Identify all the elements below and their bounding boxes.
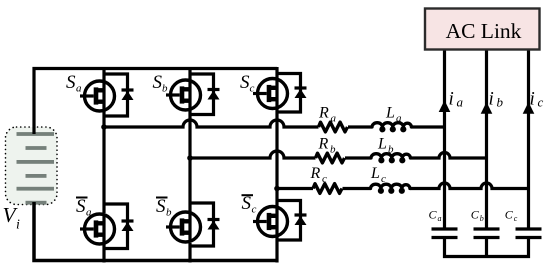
svg-text:S: S (66, 72, 76, 93)
svg-text:L: L (385, 105, 395, 122)
svg-text:R: R (318, 136, 329, 153)
svg-text:a: a (76, 83, 82, 95)
svg-text:b: b (330, 144, 336, 156)
svg-text:i: i (449, 89, 454, 110)
svg-text:AC Link: AC Link (446, 19, 522, 43)
svg-text:c: c (250, 83, 255, 95)
svg-text:R: R (318, 105, 329, 122)
svg-text:c: c (381, 173, 386, 185)
svg-text:C: C (471, 208, 480, 222)
svg-text:b: b (480, 214, 484, 223)
svg-text:b: b (497, 95, 504, 110)
svg-text:a: a (86, 207, 92, 219)
svg-text:i: i (16, 218, 20, 233)
svg-text:a: a (331, 113, 337, 125)
svg-text:i: i (530, 89, 535, 110)
svg-text:S: S (76, 196, 86, 217)
svg-text:L: L (377, 136, 387, 153)
svg-text:a: a (457, 95, 464, 110)
svg-text:b: b (388, 144, 394, 156)
svg-text:R: R (310, 165, 321, 182)
svg-text:a: a (438, 214, 442, 223)
svg-text:S: S (240, 72, 250, 93)
svg-text:b: b (162, 83, 168, 95)
svg-text:b: b (166, 207, 172, 219)
svg-text:a: a (396, 113, 402, 125)
svg-text:C: C (429, 208, 438, 222)
svg-text:C: C (505, 208, 514, 222)
svg-text:c: c (322, 173, 327, 185)
svg-text:c: c (252, 204, 257, 216)
svg-text:c: c (514, 214, 518, 223)
svg-text:L: L (370, 165, 380, 182)
svg-text:c: c (538, 95, 544, 110)
svg-text:S: S (156, 196, 166, 217)
svg-text:S: S (153, 72, 163, 93)
svg-text:i: i (489, 89, 494, 110)
